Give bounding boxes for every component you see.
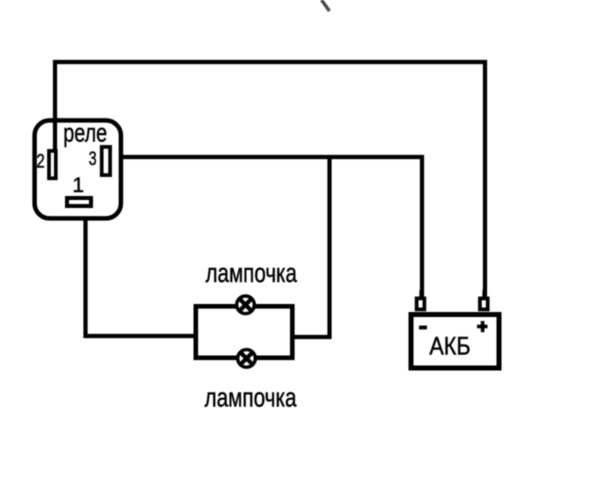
svg-text:лампочка: лампочка — [205, 382, 298, 412]
relay pin 3 (vertical contact) — [102, 147, 110, 175]
lamp box (parallel lamps rectangle) — [196, 306, 292, 358]
svg-text:реле: реле — [63, 118, 107, 148]
wire stub into + terminal — [482, 290, 486, 300]
watermark tick artifact top center — [322, 0, 330, 11]
svg-text:1: 1 — [72, 174, 84, 197]
svg-text:2: 2 — [36, 150, 44, 172]
svg-text:лампочка: лампочка — [206, 258, 298, 288]
wire: from relay pin 1 down, then right to lamp box left side — [86, 206, 197, 336]
battery terminal + (right post) — [480, 298, 488, 309]
relay body (rounded box) — [35, 120, 121, 218]
svg-text:АКБ: АКБ — [429, 333, 470, 361]
wire: junction drop from pin-3 wire down, then left to lamp box right side — [293, 156, 330, 337]
lamp L1 (top, circle with cross) — [237, 296, 255, 314]
battery АКБ body — [411, 315, 499, 369]
wire: top wire from relay pin 2 up, across, down to battery + terminal — [55, 62, 485, 300]
wire stub into - terminal — [419, 290, 423, 300]
lamp L2 (bottom, circle with cross) — [238, 350, 256, 368]
plus sign — [477, 321, 488, 332]
wire: from relay pin 3 right, then down to battery - terminal — [112, 157, 422, 300]
relay pin 1 (horizontal contact) — [67, 198, 91, 206]
relay pin 2 (vertical contact) — [49, 151, 56, 178]
battery terminal - (left post) — [417, 298, 425, 309]
wire stub: top wire into pin 2 (redrawn over relay edge) — [53, 118, 57, 152]
minus sign — [419, 326, 427, 330]
svg-text:3: 3 — [89, 149, 97, 170]
